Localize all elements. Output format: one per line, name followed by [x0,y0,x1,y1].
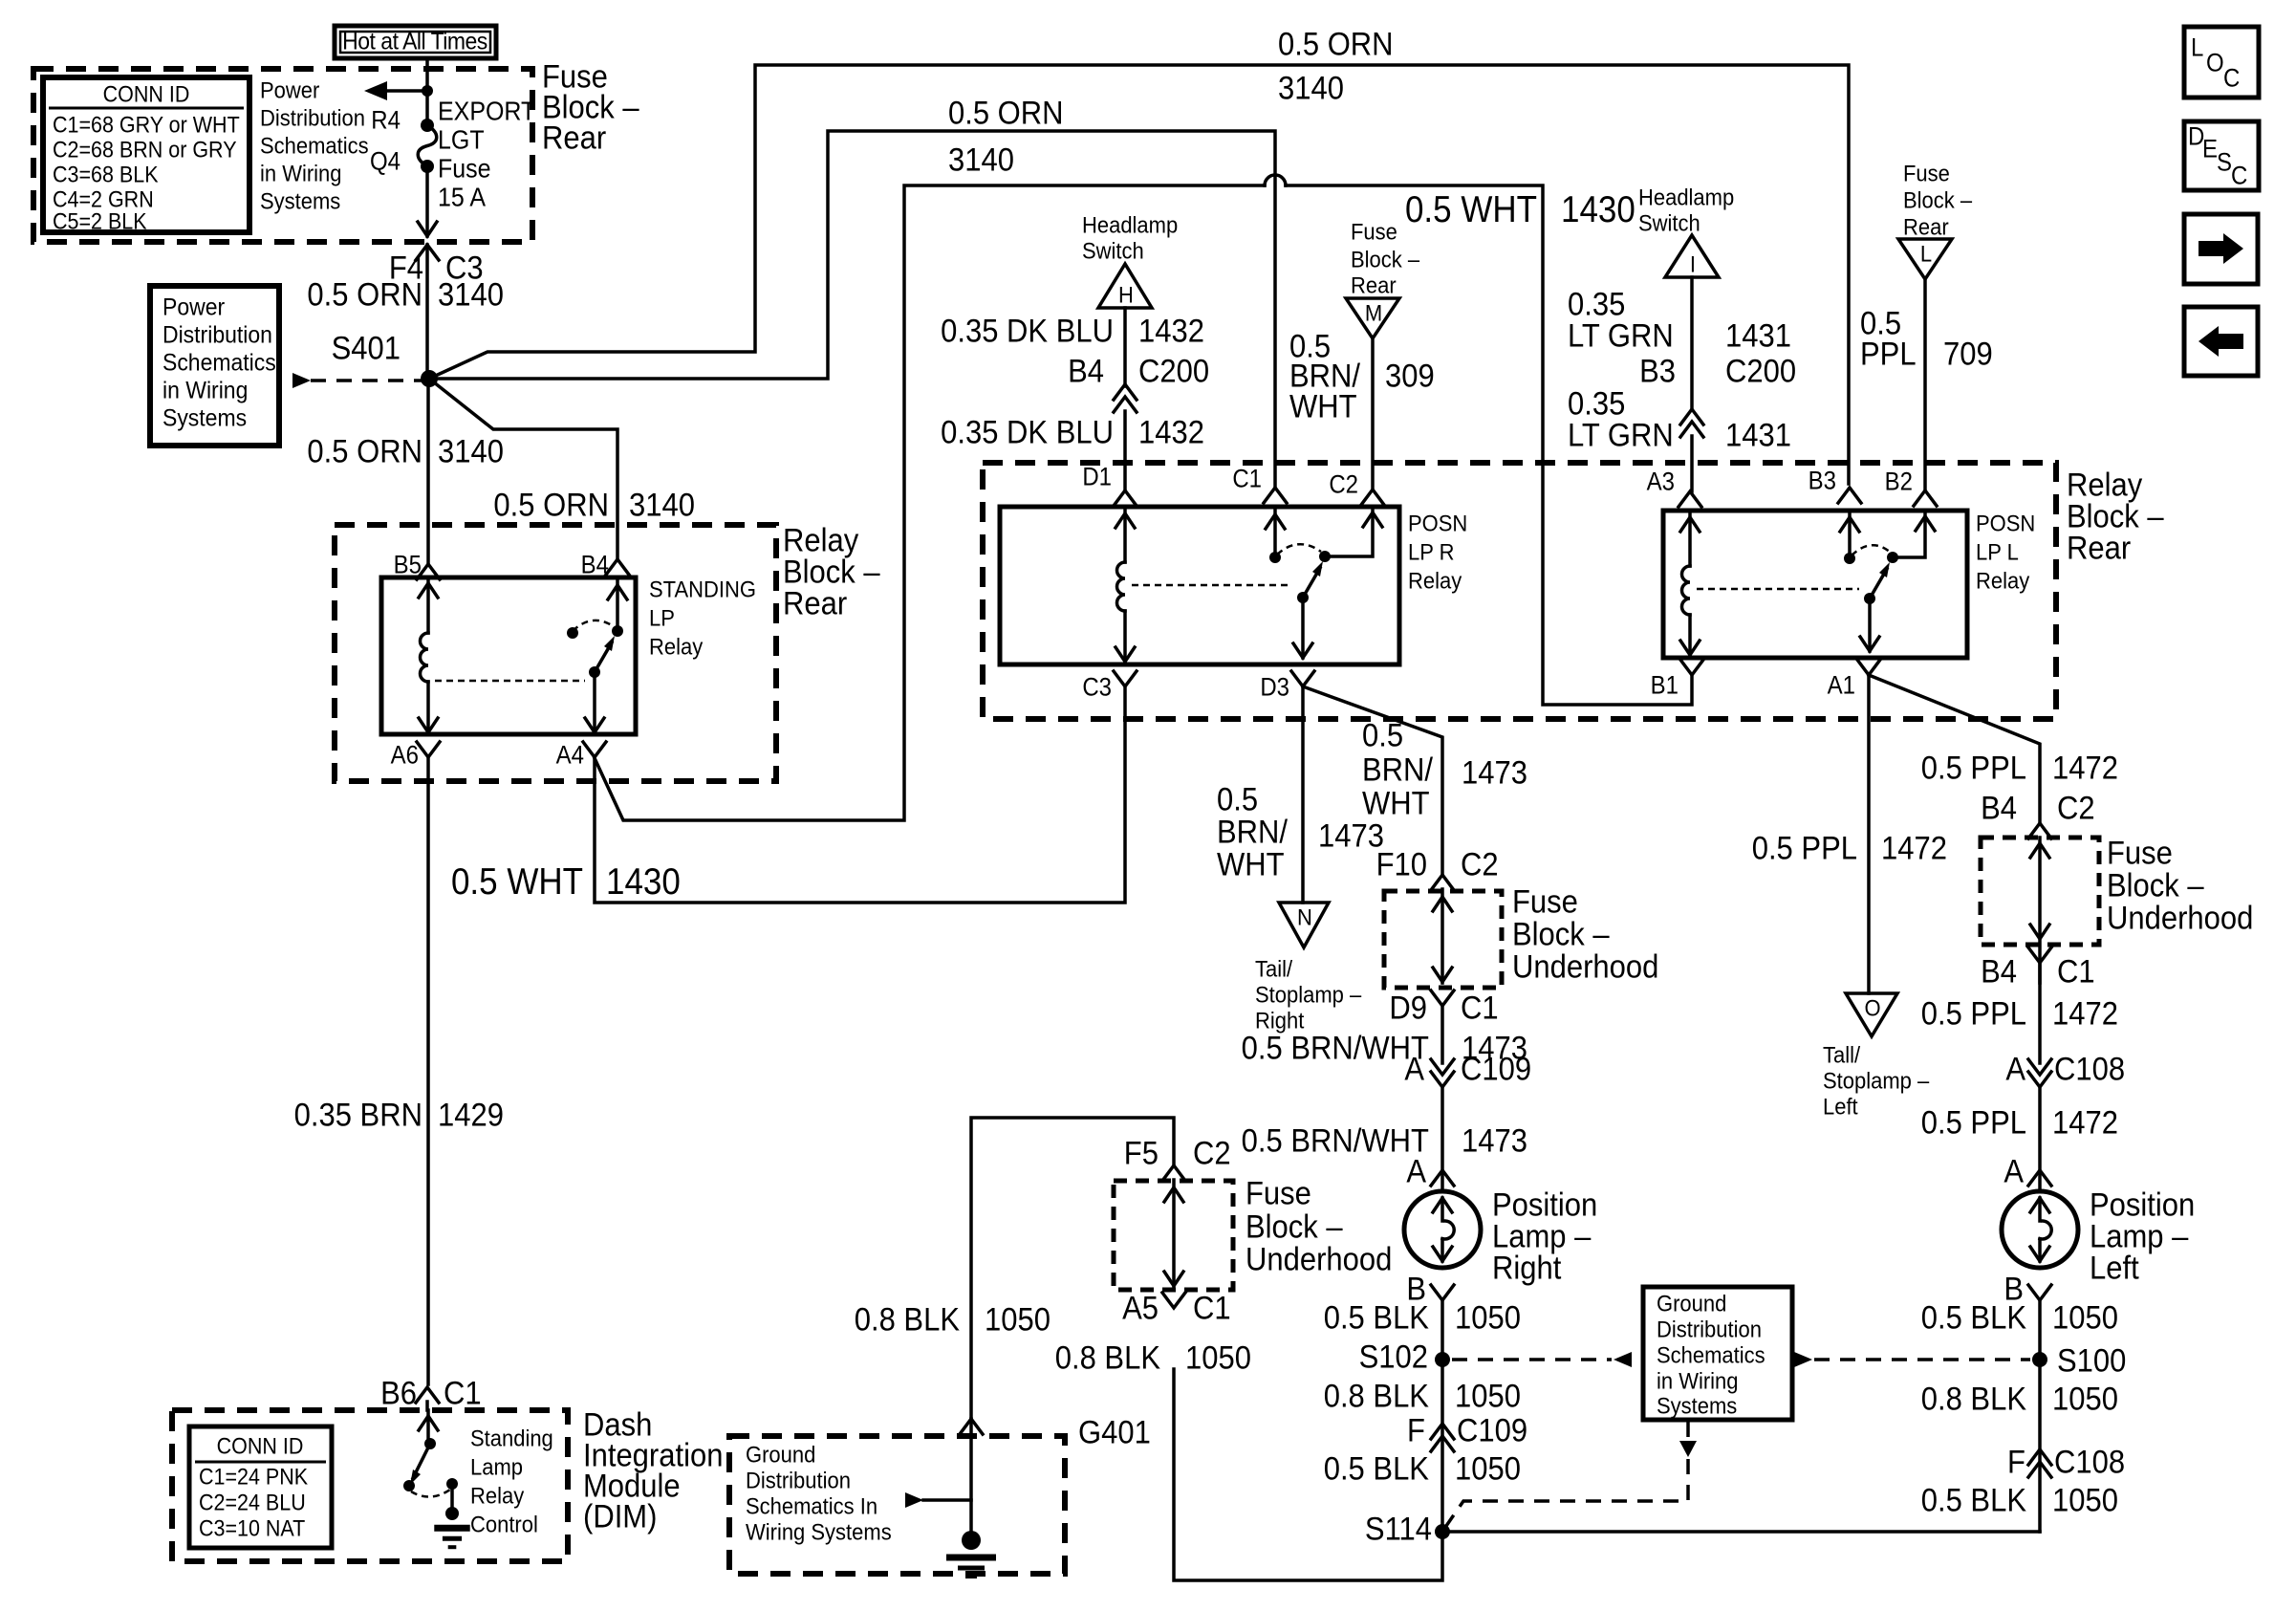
svg-text:Schematics: Schematics [260,133,369,159]
svg-text:A4: A4 [556,741,584,769]
icon box DESC [2184,121,2259,190]
svg-text:C2: C2 [1193,1135,1231,1171]
wire DK BLU 1432 C200 to D1 [1123,411,1127,490]
wire ORN 3140 S401 up-right to top line (to relay block rear left POSN LP L B3) [429,65,1849,484]
svg-text:709: 709 [1943,336,1993,372]
svg-text:0.5 WHT: 0.5 WHT [451,861,583,903]
svg-text:EXPORT: EXPORT [438,96,535,125]
svg-text:C: C [2231,162,2247,189]
pin B2 connector [1914,490,1937,506]
svg-text:Systems: Systems [260,188,340,214]
label Hot at All Times [335,26,496,58]
fuse block underhood dashed box (ground) [1172,1180,1176,1286]
svg-text:Standing: Standing [470,1426,553,1451]
CONN ID table (DIM) [189,1426,332,1548]
svg-text:Fuse: Fuse [438,153,491,183]
svg-text:0.5 ORN: 0.5 ORN [493,487,609,523]
svg-text:C2=68 BRN or GRY: C2=68 BRN or GRY [53,138,237,163]
standing lamp relay control switch in DIM [426,1410,430,1444]
svg-text:0.5 BLK: 0.5 BLK [1921,1299,2027,1336]
svg-text:1050: 1050 [985,1301,1051,1338]
svg-text:F: F [1407,1412,1425,1448]
svg-text:1432: 1432 [1138,313,1204,349]
svg-text:O: O [2206,49,2224,76]
svg-text:Relay: Relay [470,1483,525,1509]
svg-text:0.8 BLK: 0.8 BLK [1055,1339,1161,1376]
svg-text:0.5 PPL: 0.5 PPL [1752,830,1857,866]
svg-text:15 A: 15 A [438,182,486,211]
dashed wire S102 to ground distribution box [1452,1358,1612,1361]
pin D3 connector [1291,671,1314,686]
svg-text:Rear: Rear [783,585,847,621]
svg-text:Schematics: Schematics [162,349,276,376]
arrow right from ground distribution box [1794,1352,1812,1367]
svg-text:1050: 1050 [1185,1339,1251,1376]
pin A4 connector [583,742,606,757]
relay K2 switch output to D3 [1301,598,1305,658]
pin A6 connector [417,742,440,757]
svg-text:Underhood: Underhood [2107,900,2253,936]
svg-text:S401: S401 [332,330,401,366]
svg-text:D9: D9 [1389,990,1427,1026]
ground symbol (DIM) [445,1507,459,1520]
svg-text:Ground: Ground [1657,1291,1726,1317]
svg-text:B1: B1 [1651,671,1679,699]
svg-text:Relay: Relay [1408,568,1462,594]
svg-text:LP: LP [649,605,675,631]
svg-text:B3: B3 [1639,353,1676,389]
svg-text:1431: 1431 [1725,417,1791,453]
pin C3 connector [1114,671,1137,686]
svg-text:Distribution: Distribution [1657,1317,1762,1342]
wire PPL 709 L to B2 [1923,279,1927,490]
pin C1 connector [1264,488,1287,503]
pin A connector (left lamp) [2028,1170,2051,1186]
svg-text:Underhood: Underhood [1512,948,1658,985]
connector G401 chevron [960,1419,983,1434]
relay K2 POSN LP R relay box [1000,507,1399,664]
svg-text:M: M [1365,300,1382,326]
svg-text:0.5 PPL: 0.5 PPL [1921,1104,2026,1141]
ground symbol G401 [962,1531,981,1550]
svg-text:Fuse: Fuse [1903,161,1950,186]
arrow left from ground distribution box [1614,1352,1632,1367]
relay block rear dashed box (right) [983,463,2056,719]
svg-text:C3=10 NAT: C3=10 NAT [199,1516,305,1541]
relay K1 coil branch B5-A6 [426,577,430,633]
pin A connector (right lamp) [1431,1170,1454,1186]
svg-text:WHT: WHT [1362,785,1430,821]
wire from Hot at All Times into fuse block [425,58,429,122]
svg-text:C1: C1 [444,1375,482,1411]
svg-text:Schematics: Schematics [1657,1342,1765,1368]
svg-text:C1=68 GRY or WHT: C1=68 GRY or WHT [53,113,240,138]
svg-text:Block –: Block – [1512,916,1610,952]
svg-text:BRN/: BRN/ [1362,751,1434,788]
dashed wire ground distribution to S114 [1446,1459,1688,1526]
svg-text:C3: C3 [1082,673,1112,701]
svg-text:Headlamp: Headlamp [1082,212,1178,238]
svg-text:Rear: Rear [1351,272,1397,298]
svg-text:STANDING: STANDING [649,577,756,602]
svg-text:Block –: Block – [1351,247,1419,272]
dashed wire ground distribution box to S100 [1814,1358,2030,1361]
wire BRN/WHT 1473 to C109 [1440,1006,1444,1063]
svg-text:Ground: Ground [746,1442,815,1468]
svg-text:Fuse: Fuse [1351,219,1397,245]
pin B3 connector [1838,488,1861,503]
svg-text:Relay: Relay [1976,568,2030,594]
svg-text:L: L [1920,241,1932,267]
relay block rear dashed box (left) [335,525,776,781]
svg-text:1050: 1050 [2052,1482,2118,1518]
svg-text:Lamp: Lamp [470,1454,523,1480]
svg-text:C2: C2 [1461,846,1499,882]
wire BLK 1050 A5 chain bottom to S114 [1174,1369,1442,1580]
svg-text:Q4: Q4 [370,147,401,175]
connector A5/C1 chevron [1162,1293,1185,1308]
svg-text:LGT: LGT [438,124,485,154]
svg-text:C109: C109 [1457,1412,1527,1448]
contact arc dashed [411,1490,450,1497]
svg-text:1050: 1050 [2052,1381,2118,1417]
connector F4/C3 chevron [416,245,439,260]
svg-text:C2: C2 [2057,790,2095,826]
svg-text:Systems: Systems [162,404,247,431]
svg-text:A: A [1406,1153,1426,1189]
connector B4/C2 chevron (left) [2028,823,2051,838]
svg-text:3140: 3140 [438,276,504,313]
svg-text:3140: 3140 [948,142,1014,178]
relay K1 contact arc dashed [573,620,615,631]
relay K3 POSN LP L relay box [1663,511,1967,658]
svg-text:A6: A6 [391,741,419,769]
svg-text:Power: Power [260,77,320,103]
svg-text:LP R: LP R [1408,539,1454,565]
pin B5 connector [417,564,440,579]
ground distribution schematics box (solid) [1643,1287,1792,1420]
wire BRN/WHT 1473 C109 to lamp [1440,1087,1444,1191]
svg-text:B6: B6 [380,1375,417,1411]
svg-text:C1: C1 [1193,1290,1231,1326]
svg-text:C1: C1 [2057,953,2095,990]
svg-text:in Wiring: in Wiring [162,377,248,403]
wire PPL 1472 A1 to fuse block underhood (left lamp feed) [1869,675,2040,823]
svg-text:Left: Left [2090,1250,2139,1286]
arrow down from ground distribution box [1686,1422,1690,1439]
splice S102 [1435,1352,1450,1367]
wire WHT 1430 A4 to POSN LP L relay B1 (long route) [595,185,1265,820]
fuse block - rear dashed box [33,69,532,242]
svg-text:Headlamp: Headlamp [1638,185,1734,210]
wire LT GRN 1431 C200 to A3 [1690,436,1694,491]
wire BRN 1429 A6 to DIM B6 [426,757,430,1384]
svg-text:309: 309 [1385,358,1435,394]
svg-text:1472: 1472 [1881,830,1947,866]
svg-text:C1=24 PNK: C1=24 PNK [199,1465,308,1490]
svg-text:F: F [2007,1444,2025,1480]
svg-text:C200: C200 [1725,353,1796,389]
svg-text:PPL: PPL [1860,336,1917,372]
svg-text:in Wiring: in Wiring [1657,1368,1739,1394]
relay K1 switch output to A4 [593,672,596,732]
wire BRN/WHT 1473 D3 to N triangle [1301,686,1305,903]
svg-text:C109: C109 [1461,1051,1531,1087]
arrow to power distribution (left) [377,89,427,93]
wire ORN 3140 S401 right to POSN LP R relay C1 [429,131,1275,488]
svg-text:1473: 1473 [1462,1122,1527,1159]
svg-text:(DIM): (DIM) [583,1498,657,1535]
svg-text:0.5 WHT: 0.5 WHT [1405,189,1537,230]
wire ORN 3140 S401 to STANDING LP relay B4 [429,379,617,559]
svg-text:Block –: Block – [1903,187,1972,213]
pin B4 connector [606,559,629,575]
svg-text:3140: 3140 [438,433,504,469]
svg-text:0.5 ORN: 0.5 ORN [948,95,1064,131]
connector B4/C1 chevron (left) [2028,947,2051,963]
wire ORN 3140 S401 down to STANDING LP relay B5 [426,379,430,564]
wire G401 ground stem [969,1419,973,1532]
relay K3 coil branch A3-B1 [1688,511,1692,566]
svg-text:B5: B5 [394,551,422,578]
svg-text:LT GRN: LT GRN [1568,317,1674,354]
svg-text:0.5 BLK: 0.5 BLK [1324,1450,1430,1487]
svg-text:CONN ID: CONN ID [217,1434,304,1459]
wire ground G401 to F5 (via fuse block underhood) [971,1118,1174,1419]
svg-text:Rear: Rear [2067,530,2131,566]
svg-text:0.8 BLK: 0.8 BLK [855,1301,961,1338]
svg-text:0.5 ORN: 0.5 ORN [307,276,422,313]
svg-text:B4: B4 [1068,353,1104,389]
pin B connector (right lamp) [1431,1285,1454,1300]
power distribution schematics box [150,286,279,446]
svg-text:S: S [2217,148,2232,176]
switch contact dot [403,1480,415,1491]
svg-text:Systems: Systems [1657,1393,1737,1419]
svg-text:Hot at All Times: Hot at All Times [342,28,487,54]
svg-text:C1: C1 [1232,465,1262,492]
ground contact dot [446,1478,458,1490]
splice S100 [2032,1352,2047,1367]
svg-text:Underhood: Underhood [1245,1241,1392,1277]
offpage connector N Tail/Stoplamp Right [1279,903,1329,947]
svg-text:0.35 DK BLU: 0.35 DK BLU [941,414,1114,450]
svg-text:A: A [2005,1051,2025,1087]
svg-text:C1: C1 [1461,990,1499,1026]
svg-text:Distribution: Distribution [162,321,272,348]
svg-text:Wiring Systems: Wiring Systems [746,1519,892,1545]
svg-text:Power: Power [162,294,225,320]
svg-text:1473: 1473 [1462,754,1527,791]
svg-text:0.5 BRN/WHT: 0.5 BRN/WHT [1242,1030,1429,1066]
svg-text:C: C [2223,64,2240,92]
relay K3 mechanical link dashed [1697,588,1859,591]
svg-text:C200: C200 [1138,353,1209,389]
svg-text:S100: S100 [2057,1342,2126,1379]
pin C2 connector [1361,490,1384,505]
svg-text:0.5 BLK: 0.5 BLK [1921,1482,2027,1518]
svg-text:3140: 3140 [1278,70,1344,106]
svg-text:1050: 1050 [1455,1450,1521,1487]
fuse block underhood dashed box (left lamp) [2038,838,2042,983]
svg-text:0.5: 0.5 [1217,781,1258,817]
pin B1 connector [1680,660,1703,675]
svg-text:F5: F5 [1124,1135,1159,1171]
pin A3 connector [1679,491,1701,507]
relay K1 mechanical link dashed [435,680,585,683]
svg-text:B3: B3 [1809,467,1836,494]
svg-text:A: A [2004,1153,2024,1189]
svg-text:Switch: Switch [1638,210,1700,236]
svg-text:Switch: Switch [1082,238,1144,264]
svg-text:C2: C2 [1329,470,1358,498]
relay K2 armature pivot and arm [1297,592,1309,603]
svg-text:1472: 1472 [2052,1104,2118,1141]
svg-text:C108: C108 [2054,1051,2125,1087]
wire PPL 1472 A1 to O triangle [1867,675,1871,993]
offpage connector O Tail/Stoplamp Left [1846,993,1897,1036]
svg-text:Rear: Rear [542,120,606,156]
svg-text:Block –: Block – [2107,867,2204,903]
svg-text:1473: 1473 [1318,817,1384,854]
svg-text:A5: A5 [1122,1290,1159,1326]
pin B connector (left lamp) [2028,1285,2051,1300]
fuse EXPORT LGT Fuse 15A element [418,125,437,166]
fuse R4 terminal dot [421,119,434,132]
ground distribution schematics dashed box [729,1436,1065,1574]
svg-text:Stoplamp –: Stoplamp – [1823,1068,1929,1094]
fuse Q4 terminal dot [421,160,434,173]
svg-text:R4: R4 [371,106,401,134]
relay K2 common contact from C1 [1273,507,1277,557]
svg-text:1431: 1431 [1725,317,1791,354]
svg-text:1472: 1472 [2052,750,2118,786]
relay K3 fixed contact to B2 [1887,552,1898,563]
svg-text:1050: 1050 [1455,1378,1521,1414]
svg-text:A: A [1404,1051,1424,1087]
svg-text:POSN: POSN [1976,511,2035,536]
svg-text:B4: B4 [581,551,609,578]
svg-text:3140: 3140 [629,487,695,523]
icon box arrow left [2184,307,2258,376]
svg-text:1430: 1430 [606,861,681,903]
svg-text:0.5 ORN: 0.5 ORN [307,433,422,469]
relay K2 mechanical link dashed [1132,584,1292,587]
svg-text:in Wiring: in Wiring [260,161,342,186]
svg-text:0.5 ORN: 0.5 ORN [1278,26,1394,62]
svg-text:0.5 BRN/WHT: 0.5 BRN/WHT [1242,1122,1429,1159]
fuse block underhood dashed box (right lamp) [1440,889,1444,983]
CONN ID table (fuse block rear) [43,77,249,232]
svg-text:I: I [1690,251,1696,277]
svg-text:B2: B2 [1885,468,1913,495]
svg-text:0.35 BRN: 0.35 BRN [294,1097,422,1133]
pin D1 connector [1114,490,1137,506]
svg-text:A3: A3 [1647,468,1675,495]
svg-text:0.5 BLK: 0.5 BLK [1324,1299,1430,1336]
position lamp left symbol [2002,1191,2078,1268]
svg-text:F10: F10 [1376,846,1427,882]
relay K3 switch output to A1 [1868,599,1872,651]
svg-text:Block –: Block – [1245,1208,1343,1245]
svg-text:1050: 1050 [1455,1299,1521,1336]
svg-text:Tall/: Tall/ [1823,1042,1861,1068]
arrow from power distribution box [292,373,311,388]
svg-text:D3: D3 [1260,673,1289,701]
relay K3 contact arc dashed [1852,545,1891,555]
icon box arrow right [2184,214,2258,284]
svg-text:BRN/: BRN/ [1217,814,1289,850]
svg-text:Distribution: Distribution [260,105,365,131]
dashed wire to S401 [311,379,422,382]
svg-text:L: L [2191,33,2203,61]
svg-text:1472: 1472 [2052,995,2118,1032]
svg-text:LT GRN: LT GRN [1568,417,1674,453]
wire BLK 1050 right lamp down to S114 [1440,1300,1444,1532]
relay K3 common contact from B3 [1848,511,1852,558]
svg-text:Stoplamp –: Stoplamp – [1255,982,1361,1008]
svg-text:Fuse: Fuse [2107,835,2173,871]
wire BRN/WHT 309 M to C2 [1371,338,1375,490]
wire LT GRN 1431 I to C200 [1690,277,1694,409]
svg-text:Left: Left [1823,1094,1858,1120]
svg-text:1050: 1050 [2052,1299,2118,1336]
svg-text:CONN ID: CONN ID [103,82,190,107]
svg-text:C108: C108 [2054,1444,2125,1480]
svg-text:Fuse: Fuse [1512,883,1578,920]
svg-text:Distribution: Distribution [746,1468,851,1493]
svg-text:Rear: Rear [1903,214,1949,240]
svg-text:Tail/: Tail/ [1255,956,1293,982]
svg-text:Right: Right [1492,1250,1561,1286]
wire PPL 1472 to C108 [2038,963,2042,1063]
svg-text:1432: 1432 [1138,414,1204,450]
svg-text:0.5 PPL: 0.5 PPL [1921,995,2026,1032]
svg-text:Fuse: Fuse [1245,1175,1311,1211]
wire WHT 1430 A4 down to POSN LP R relay C3 [595,686,1125,903]
svg-text:S114: S114 [1365,1511,1432,1547]
connector B6/C1 chevron [416,1387,439,1403]
relay K2 contact arc dashed [1277,544,1321,555]
svg-text:C5=2 BLK: C5=2 BLK [53,209,147,234]
svg-text:C3=68 BLK: C3=68 BLK [53,163,159,187]
splice S114 [1435,1524,1450,1539]
svg-text:1430: 1430 [1561,189,1635,230]
relay K2 coil branch D1-C3 [1123,507,1127,562]
wire fuse output down [425,166,429,236]
connector F5/C2 chevron [1162,1165,1185,1181]
relay K1 switch fixed contact from B4 [616,577,619,631]
wire BLK 1050 S114 to left lamp branch [1442,1530,2040,1534]
svg-text:H: H [1118,282,1134,308]
splice S401 [421,370,438,387]
svg-text:G401: G401 [1078,1414,1151,1450]
svg-text:0.8 BLK: 0.8 BLK [1921,1381,2027,1417]
relay K2 fixed contact to C2 [1319,551,1331,562]
svg-text:1429: 1429 [438,1097,504,1133]
svg-text:LP L: LP L [1976,539,2019,565]
svg-text:0.8 BLK: 0.8 BLK [1324,1378,1430,1414]
relay K1 armature pivot and arm [589,666,600,678]
svg-text:Relay: Relay [649,634,704,660]
svg-text:WHT: WHT [1289,388,1357,425]
svg-text:E: E [2202,135,2218,163]
svg-text:POSN: POSN [1408,511,1467,536]
position lamp right symbol [1404,1191,1481,1268]
relay K3 armature pivot and arm [1864,593,1875,604]
pin A1 connector [1857,660,1880,675]
arrow to G401 wire [905,1492,923,1508]
